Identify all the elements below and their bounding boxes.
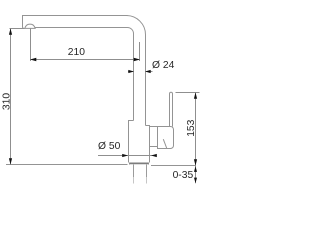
dia50 left arrow xyxy=(122,154,128,157)
210 extension line left at spout tip xyxy=(30,29,32,62)
lever tilt line in joint xyxy=(163,139,167,148)
countertop line right xyxy=(151,165,196,167)
svg-text:0-35: 0-35 xyxy=(173,170,194,181)
153 top arrow xyxy=(194,92,197,98)
connector bottom seam xyxy=(150,146,158,148)
210 extension line right pipe axis xyxy=(139,42,141,61)
210 dimension line xyxy=(31,59,140,61)
dia24 right arrow xyxy=(145,70,151,73)
0-35 bottom arrow xyxy=(194,178,197,184)
0-35 top arrow xyxy=(194,166,197,172)
svg-text:310: 310 xyxy=(2,93,13,110)
base flange xyxy=(130,163,149,165)
dia24 dimension line left segment xyxy=(128,71,134,73)
dia24 left arrow xyxy=(128,70,134,73)
spout tip aerator dome xyxy=(23,24,36,28)
svg-text:210: 210 xyxy=(68,47,85,58)
svg-text:Ø 50: Ø 50 xyxy=(98,141,121,152)
handle lever rod xyxy=(170,92,173,126)
153 extension line from rod top xyxy=(176,92,200,94)
connector ledge to handle joint xyxy=(150,126,158,128)
faucet spout inner contour xyxy=(35,27,133,120)
310 bottom arrow xyxy=(9,158,12,164)
210 left arrow xyxy=(30,58,36,61)
210 right arrow xyxy=(134,58,140,61)
310 dimension line xyxy=(10,29,12,165)
svg-text:Ø 24: Ø 24 xyxy=(152,60,175,71)
handle joint cylinder xyxy=(158,127,174,149)
countertop line left xyxy=(6,164,128,166)
svg-text:153: 153 xyxy=(186,119,197,136)
153 and 0-35 dimension line xyxy=(195,93,197,184)
body right step xyxy=(146,126,150,163)
dia50 dimension line across flange top xyxy=(98,155,157,157)
dia50 right arrow xyxy=(151,154,157,157)
faucet spout outer contour xyxy=(23,15,146,125)
310 top arrow xyxy=(9,28,12,34)
310 extension line top xyxy=(10,28,25,30)
dia24 dimension line right segment xyxy=(146,71,153,73)
153 bottom arrow xyxy=(194,159,197,165)
body left step xyxy=(129,121,134,163)
threaded shank below counter xyxy=(134,165,147,178)
